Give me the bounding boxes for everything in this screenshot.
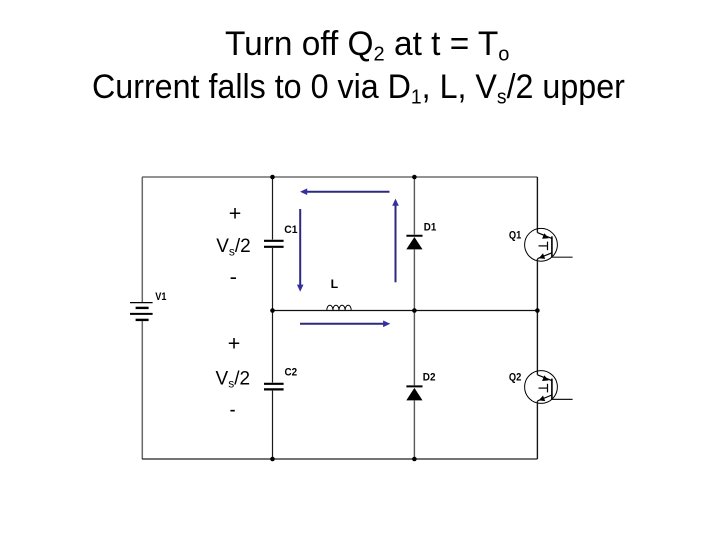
svg-text:V1: V1 [155,291,166,303]
svg-text:L: L [331,277,339,291]
node bottom diode junction [412,457,417,462]
wire capacitor branch upper [272,177,274,240]
wire left branch lower [141,321,143,459]
label minus lower [230,397,236,421]
wire diode branch upper [413,177,415,235]
svg-text:Vs/2: Vs/2 [216,368,251,390]
label V1 [155,291,166,303]
svg-text:+: + [229,202,242,226]
label minus upper [230,265,237,289]
transistor Q1 [525,228,558,261]
wire current arrow left vertical [297,209,304,292]
wire right branch lower [536,401,538,459]
label plus upper [229,202,242,226]
svg-text:C2: C2 [285,367,298,379]
node bottom capacitor junction [270,457,275,462]
label Vs/2 upper [216,236,251,258]
node top diode junction [412,175,417,180]
transistor Q2 [525,371,558,404]
wire capacitor branch middle [272,248,274,383]
svg-text:D1: D1 [424,222,437,234]
node middle diode junction [412,308,417,313]
svg-text:D2: D2 [423,372,436,384]
wire bottom bus [142,458,537,460]
label Q1 [509,229,521,241]
wire diode branch middle [413,249,415,385]
title line 1 [225,25,509,64]
svg-text:Q1: Q1 [509,229,521,241]
label C1 [284,224,297,236]
node middle capacitor junction [270,308,275,313]
inductor L [327,305,351,310]
title line 2 [92,68,625,107]
svg-text:-: - [230,397,236,421]
label L [331,277,339,291]
wire current arrow middle horizontal [300,321,390,328]
label plus lower [228,332,241,356]
diode D2 [406,386,422,400]
node top capacitor junction [270,175,275,180]
label Vs/2 lower [216,368,251,390]
diode D1 [406,236,422,250]
svg-text:Q2: Q2 [509,371,521,383]
capacitor C2 [264,384,284,390]
wire current arrow right vertical [392,199,399,283]
svg-text:Vs/2: Vs/2 [216,236,251,258]
wire Q2 gate lead [552,398,573,400]
svg-text:-: - [230,265,237,289]
wire right branch middle [536,259,538,375]
label D1 [424,222,437,234]
wire diode branch lower [413,400,415,459]
label Q2 [509,371,521,383]
label C2 [285,367,298,379]
label D2 [423,372,436,384]
wire top bus [142,176,537,178]
wire left branch upper [141,177,143,302]
battery V1 [130,303,153,320]
wire current arrow top horizontal [300,188,390,195]
node middle right junction [535,308,540,313]
capacitor C1 [264,241,284,247]
wire middle bus [273,310,538,312]
svg-text:+: + [228,332,241,356]
svg-text:C1: C1 [284,224,297,236]
wire Q1 gate lead [552,256,573,258]
wire capacitor branch lower [272,391,274,459]
wire right branch upper [536,177,538,233]
